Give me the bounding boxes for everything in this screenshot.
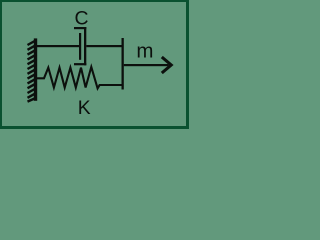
svg-text:C: C [74,8,88,30]
wall hatching [28,40,37,102]
damper piston plate [79,33,81,60]
damper cylinder top bar [74,27,86,29]
damper cylinder right wall [84,27,86,65]
arrowhead [162,57,171,73]
frame border [0,0,189,129]
wall [34,38,37,100]
wire damper to junction [86,45,121,47]
svg-text:m: m [136,40,153,63]
svg-text:K: K [78,98,91,119]
damper cylinder bottom bar [74,63,86,65]
arrow line to mass [124,64,169,66]
junction vertical bar [122,38,124,90]
spring K zigzag [37,67,122,89]
wire wall to damper piston [37,45,79,47]
